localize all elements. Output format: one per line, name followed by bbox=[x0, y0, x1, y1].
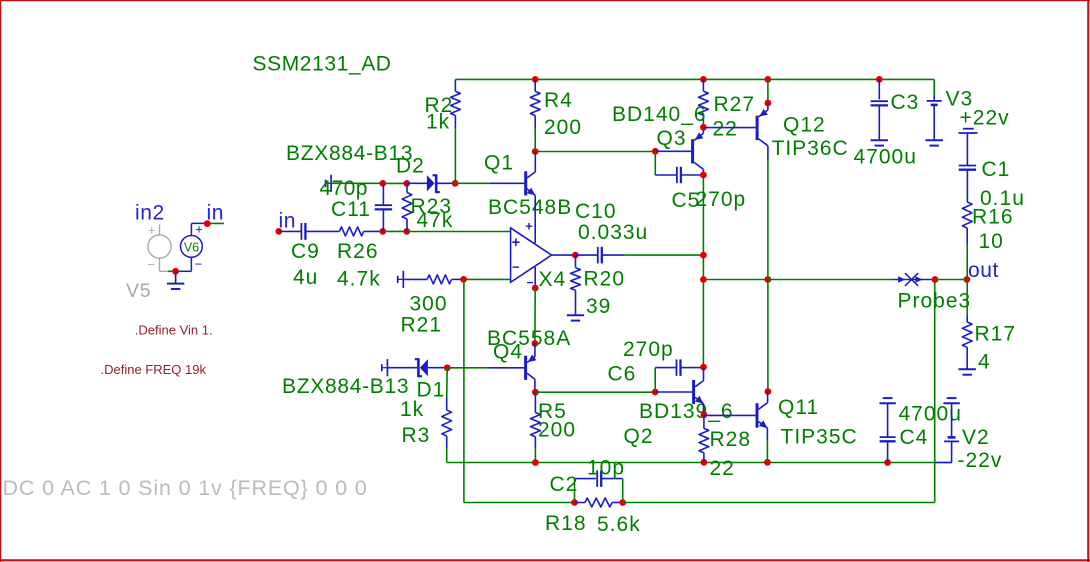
label TIP35C bbox=[781, 426, 858, 449]
svg-text:Q3: Q3 bbox=[657, 127, 687, 150]
transistor Q11 (NPN TIP35C) bbox=[704, 392, 768, 441]
junction output/R20 bbox=[572, 252, 579, 259]
svg-text:R28: R28 bbox=[710, 428, 752, 451]
label C3 value 4700u bbox=[854, 146, 917, 169]
svg-text:270p: 270p bbox=[623, 338, 674, 361]
wire Q1 base bbox=[455, 182, 490, 184]
svg-text:BD139_6: BD139_6 bbox=[639, 400, 734, 423]
label R28 bbox=[710, 428, 752, 451]
label BD139_6 bbox=[639, 400, 734, 423]
svg-text:R18: R18 bbox=[545, 512, 587, 535]
capacitor C4 bbox=[880, 403, 896, 462]
svg-text:.Define Vin 1.: .Define Vin 1. bbox=[135, 323, 213, 338]
svg-text:C9: C9 bbox=[291, 240, 320, 263]
label C1 bbox=[982, 158, 1011, 181]
wire V5/V6 common bbox=[168, 270, 180, 272]
junction Q11 emitter bottom bbox=[764, 459, 771, 466]
label BC548B bbox=[488, 196, 572, 219]
label V2 bbox=[962, 426, 990, 449]
wire -22v bottom line bbox=[447, 462, 952, 464]
wire feedback loop right bbox=[623, 280, 935, 503]
svg-text:1k: 1k bbox=[400, 398, 424, 421]
junction C3 top bbox=[876, 76, 883, 83]
svg-text:C2: C2 bbox=[550, 473, 579, 496]
junction R27/Q3/Q12base bbox=[700, 124, 707, 131]
label C1 value 0.1u bbox=[980, 187, 1025, 210]
svg-text:4.7k: 4.7k bbox=[337, 268, 381, 291]
label R28 value 22 bbox=[710, 457, 735, 480]
resistor R4 bbox=[530, 79, 540, 151]
wire -in to bottom loop bbox=[464, 279, 575, 502]
wire opamp out bbox=[552, 254, 576, 256]
svg-text:+: + bbox=[148, 224, 155, 238]
junction Q3 collector / C5 bbox=[700, 172, 707, 179]
svg-text:Q11: Q11 bbox=[778, 396, 819, 419]
resistor R20 bbox=[571, 255, 581, 315]
wire Q4 base bbox=[447, 367, 489, 369]
wire 470p net bbox=[331, 182, 383, 184]
label R4 value 200 bbox=[544, 116, 582, 139]
ground (R17) bbox=[959, 369, 976, 374]
junction R27 top bbox=[700, 76, 707, 83]
battery V3 bbox=[927, 96, 942, 139]
capacitor C5 bbox=[655, 151, 703, 183]
wire opamp V- to Q4 bbox=[534, 288, 536, 344]
junction Q3 base / C5 bbox=[652, 148, 659, 155]
svg-text:47k: 47k bbox=[417, 209, 454, 232]
svg-text:R16: R16 bbox=[972, 206, 1014, 229]
junction opamp -in / R21 bbox=[460, 276, 467, 283]
label R26 value 4.7k bbox=[337, 268, 381, 291]
svg-text:C3: C3 bbox=[891, 91, 920, 114]
label Q2 bbox=[624, 425, 654, 448]
label C2 bbox=[550, 473, 579, 496]
junction C11 top bbox=[379, 180, 386, 187]
label R23 value 47k bbox=[417, 209, 454, 232]
svg-text:−: − bbox=[195, 257, 203, 272]
resistor R18 bbox=[575, 498, 623, 507]
resistor R5 bbox=[531, 392, 541, 462]
label V2 value -22v bbox=[958, 449, 1003, 472]
label C4 value 4700u bbox=[899, 403, 962, 426]
label R5 value 200 bbox=[538, 419, 576, 442]
svg-text:+: + bbox=[512, 235, 520, 251]
open terminal (R21 net) bbox=[398, 271, 404, 288]
directive .Define Vin 1. bbox=[135, 323, 213, 338]
label C3 bbox=[891, 91, 920, 114]
svg-text:300: 300 bbox=[410, 293, 448, 316]
wire Q3 collector chain bbox=[702, 175, 704, 367]
resistor R3 bbox=[442, 368, 452, 463]
label C6 value 270p bbox=[623, 338, 674, 361]
junction Q12 emitter bbox=[765, 100, 772, 107]
junction Q2 emitter / R28 bbox=[701, 411, 708, 418]
junction out line left bbox=[700, 276, 707, 283]
svg-text:-22v: -22v bbox=[958, 449, 1003, 472]
wire +22v top rail bbox=[455, 79, 934, 96]
svg-text:200: 200 bbox=[538, 419, 576, 442]
svg-text:V6: V6 bbox=[184, 241, 199, 255]
open terminal (470p net) bbox=[326, 175, 332, 192]
source V5 parameter text bbox=[3, 476, 368, 500]
label C2 value 10p bbox=[587, 457, 625, 480]
label R21 value 300 bbox=[410, 293, 448, 316]
label R16 bbox=[972, 206, 1014, 229]
svg-text:+22v: +22v bbox=[960, 107, 1010, 130]
svg-text:R4: R4 bbox=[544, 89, 573, 112]
svg-text:+: + bbox=[525, 219, 533, 234]
label C9 value 4u bbox=[293, 266, 318, 289]
svg-text:4700u: 4700u bbox=[854, 146, 917, 169]
svg-text:10p: 10p bbox=[587, 457, 625, 480]
junction sources ground bbox=[172, 268, 179, 275]
junction R23 bottom bbox=[403, 228, 410, 235]
node in bbox=[275, 228, 282, 235]
wire Q1 emitter to opamp V+ bbox=[534, 195, 536, 243]
title SSM2131_AD bbox=[253, 53, 392, 76]
label R23 bbox=[411, 195, 453, 218]
label R20 bbox=[584, 268, 626, 291]
svg-text:in2: in2 bbox=[135, 202, 165, 225]
label in (amp input) bbox=[279, 210, 297, 233]
label C6 bbox=[608, 363, 637, 386]
wire opamp -in bbox=[464, 278, 511, 280]
label C4 bbox=[900, 426, 929, 449]
transistor Q12 (PNP TIP36C) bbox=[703, 103, 768, 160]
junction D1/R3/Q4base bbox=[444, 364, 451, 371]
resistor R17 bbox=[962, 280, 972, 370]
voltage source V6 bbox=[180, 222, 207, 272]
label C11 bbox=[331, 198, 371, 221]
junction R4 top bbox=[532, 76, 539, 83]
svg-text:BD140_6: BD140_6 bbox=[612, 103, 707, 126]
ground (C3) bbox=[871, 140, 888, 145]
label C10 bbox=[575, 200, 617, 223]
node in at V6 bbox=[204, 220, 211, 227]
svg-text:4: 4 bbox=[978, 351, 991, 374]
svg-text:R26: R26 bbox=[337, 240, 379, 263]
transistor Q4 (PNP BC558A) bbox=[489, 344, 536, 393]
wire out line bbox=[703, 279, 893, 281]
svg-text:Q2: Q2 bbox=[624, 425, 654, 448]
svg-text:Probe3: Probe3 bbox=[898, 290, 972, 313]
label R17 value 4 bbox=[978, 351, 991, 374]
op-amp X4 bbox=[511, 219, 552, 290]
wire Q11 emitter down bbox=[766, 440, 768, 462]
label Probe3 bbox=[898, 290, 972, 313]
supply terminal (+22v) bbox=[959, 129, 978, 165]
label Q12 bbox=[783, 114, 826, 137]
wire C11-R23 top bbox=[383, 182, 407, 184]
label R17 bbox=[975, 323, 1017, 346]
resistor R21 bbox=[403, 275, 463, 284]
label Q4 bbox=[493, 341, 523, 364]
junction Q1 collector / R4 bbox=[532, 148, 539, 155]
ground (sources) bbox=[167, 271, 184, 289]
wire V6 to node in bbox=[207, 222, 224, 224]
wire rail to Q12 bbox=[767, 79, 769, 103]
capacitor C9 bbox=[279, 223, 340, 240]
junction Q4 collector / R5 bbox=[532, 389, 539, 396]
label TIP36C bbox=[772, 137, 849, 160]
svg-text:BC548B: BC548B bbox=[488, 196, 572, 219]
svg-text:22: 22 bbox=[713, 118, 738, 141]
capacitor C3 bbox=[871, 79, 888, 139]
label in2 bbox=[135, 202, 165, 225]
wire to opamp +in bbox=[407, 231, 511, 233]
capacitor C6 bbox=[655, 359, 703, 392]
label R27 bbox=[714, 93, 756, 116]
svg-text:D2: D2 bbox=[396, 155, 425, 178]
svg-text:V2: V2 bbox=[962, 426, 990, 449]
transistor Q3 (PNP BD140) bbox=[655, 127, 703, 175]
resistor R26 bbox=[339, 227, 382, 236]
open terminal (D1 net) bbox=[382, 359, 388, 376]
zener diode D2 bbox=[407, 174, 455, 193]
label R27 value 22 bbox=[713, 118, 738, 141]
junction Q12 rail bbox=[765, 76, 772, 83]
label C5 bbox=[672, 189, 701, 212]
label Q11 bbox=[778, 396, 819, 419]
svg-text:R27: R27 bbox=[714, 93, 756, 116]
svg-text:R3: R3 bbox=[402, 424, 431, 447]
junction R18 right bbox=[619, 499, 626, 506]
label D1 bbox=[417, 379, 446, 402]
junction R28 bottom bbox=[701, 459, 708, 466]
voltage source V5 bbox=[148, 224, 171, 272]
capacitor C10 bbox=[575, 247, 624, 264]
label R18 bbox=[545, 512, 587, 535]
svg-text:X4: X4 bbox=[539, 268, 567, 291]
svg-text:R20: R20 bbox=[584, 268, 626, 291]
svg-text:DC 0 AC 1 0 Sin 0 1v {FREQ} 0: DC 0 AC 1 0 Sin 0 1v {FREQ} 0 0 0 bbox=[3, 476, 368, 500]
resistor R2 bbox=[451, 79, 461, 183]
junction mid/output bbox=[700, 252, 707, 259]
junction R5 bottom bbox=[532, 459, 539, 466]
svg-text:Q12: Q12 bbox=[783, 114, 826, 137]
junction Q12/Q11 collectors bbox=[765, 388, 772, 395]
label V3 bbox=[946, 88, 974, 111]
junction R18 left bbox=[571, 499, 578, 506]
junction C11 bottom bbox=[379, 228, 386, 235]
transistor Q1 (NPN BC548B) bbox=[490, 152, 535, 196]
label R2 value 1k bbox=[426, 111, 450, 134]
svg-text:−: − bbox=[148, 257, 155, 271]
svg-text:−: − bbox=[512, 260, 520, 275]
svg-text:Q4: Q4 bbox=[493, 341, 523, 364]
svg-text:470p: 470p bbox=[320, 177, 368, 200]
svg-text:10: 10 bbox=[979, 230, 1004, 253]
svg-text:Q1: Q1 bbox=[484, 152, 514, 175]
junction out / Q12-Q11 bbox=[765, 276, 772, 283]
svg-text:200: 200 bbox=[544, 116, 582, 139]
junction C4 bottom bbox=[884, 459, 891, 466]
junction Q4 emitter bbox=[532, 340, 539, 347]
svg-text:C4: C4 bbox=[900, 426, 929, 449]
label BC558A bbox=[487, 327, 571, 350]
label R4 bbox=[544, 89, 573, 112]
label R18 value 5.6k bbox=[597, 513, 641, 536]
junction opamp V- bbox=[532, 285, 539, 292]
junction out bbox=[964, 276, 971, 283]
svg-text:TIP35C: TIP35C bbox=[781, 426, 858, 449]
svg-text:5.6k: 5.6k bbox=[597, 513, 641, 536]
label BD140_6 bbox=[612, 103, 707, 126]
svg-text:39: 39 bbox=[586, 295, 611, 318]
zener diode D1 bbox=[387, 358, 447, 377]
label V3 value +22v bbox=[960, 107, 1010, 130]
svg-text:4u: 4u bbox=[293, 266, 318, 289]
label C9 bbox=[291, 240, 320, 263]
junction out/feedback bbox=[932, 276, 939, 283]
resistor R27 bbox=[699, 79, 709, 127]
svg-text:270p: 270p bbox=[696, 188, 747, 211]
label C10 value 0.033u bbox=[578, 221, 648, 244]
resistor R28 bbox=[699, 415, 709, 463]
label Q1 bbox=[484, 152, 514, 175]
capacitor C11 bbox=[375, 183, 392, 231]
wire Q12 collector down bbox=[767, 160, 769, 392]
svg-text:BZX884-B13: BZX884-B13 bbox=[282, 375, 409, 398]
label R20 value 39 bbox=[586, 295, 611, 318]
resistor R16 bbox=[962, 202, 972, 280]
label R21 bbox=[401, 314, 443, 337]
label V5 bbox=[126, 280, 151, 302]
label D1 value 1k bbox=[400, 398, 424, 421]
svg-text:TIP36C: TIP36C bbox=[772, 137, 849, 160]
label C5 value 270p bbox=[696, 188, 747, 211]
label BZX884-B13 (D2) bbox=[286, 142, 413, 165]
svg-text:R17: R17 bbox=[975, 323, 1017, 346]
label BZX884-B13 (D1) bbox=[282, 375, 409, 398]
capacitor C1 bbox=[959, 166, 976, 203]
wire input line bbox=[383, 230, 407, 232]
probe Probe3 bbox=[893, 273, 935, 286]
svg-text:C11: C11 bbox=[331, 198, 371, 221]
resistor R23 bbox=[402, 183, 412, 231]
svg-text:.Define FREQ 19k: .Define FREQ 19k bbox=[101, 362, 207, 377]
label 470p bbox=[320, 177, 368, 200]
directive .Define FREQ 19k bbox=[101, 362, 207, 377]
svg-text:V5: V5 bbox=[126, 280, 151, 302]
label D2 bbox=[396, 155, 425, 178]
junction Q2 collector / C6 bbox=[700, 364, 707, 371]
wire R5 to Q2 base bbox=[535, 391, 655, 393]
svg-text:22: 22 bbox=[710, 457, 735, 480]
wire R4 to Q3 base bbox=[535, 151, 655, 153]
svg-text:out: out bbox=[968, 259, 999, 282]
junction Q2 base / C6 bbox=[652, 389, 659, 396]
label Q3 bbox=[657, 127, 687, 150]
battery V2 bbox=[935, 403, 959, 462]
svg-text:C10: C10 bbox=[575, 200, 617, 223]
label R2 bbox=[425, 94, 454, 117]
ground (R20) bbox=[567, 315, 584, 320]
label R16 value 10 bbox=[979, 230, 1004, 253]
junction R23 top bbox=[403, 180, 410, 187]
svg-text:1k: 1k bbox=[426, 111, 450, 134]
svg-text:R21: R21 bbox=[401, 314, 443, 337]
junction D2/R2/Q1 bbox=[452, 180, 459, 187]
wire C10 to mid node bbox=[624, 254, 703, 256]
svg-text:0.033u: 0.033u bbox=[578, 221, 648, 244]
label out bbox=[968, 259, 999, 282]
svg-text:+: + bbox=[195, 222, 203, 237]
wire out segment bbox=[935, 279, 967, 281]
capacitor C2 bbox=[575, 470, 623, 502]
label in (source) bbox=[207, 202, 225, 225]
label R26 bbox=[337, 240, 379, 263]
label R5 bbox=[538, 400, 567, 423]
ground (V2, inverted) bbox=[943, 398, 959, 403]
label R3 bbox=[402, 424, 431, 447]
label X4 bbox=[539, 268, 567, 291]
svg-text:C6: C6 bbox=[608, 363, 637, 386]
transistor Q2 (NPN BD139) bbox=[655, 367, 703, 415]
ground (V3) bbox=[926, 140, 943, 145]
svg-text:BZX884-B13: BZX884-B13 bbox=[286, 142, 413, 165]
ground (C4, inverted) bbox=[879, 398, 895, 403]
svg-text:C1: C1 bbox=[982, 158, 1011, 181]
svg-text:SSM2131_AD: SSM2131_AD bbox=[253, 53, 392, 76]
